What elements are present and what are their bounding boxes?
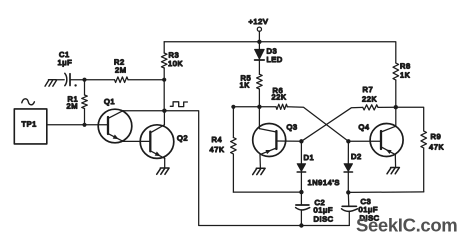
svg-text:SeekIC.com: SeekIC.com: [356, 215, 457, 236]
diode D3 LED: [255, 42, 283, 74]
+12V supply terminal: [249, 17, 269, 42]
svg-text:2M: 2M: [67, 102, 79, 111]
svg-text:10K: 10K: [168, 59, 183, 68]
resistor R1 2M: [67, 80, 88, 125]
node junction Q4 base/D2: [346, 139, 350, 143]
svg-text:1K: 1K: [400, 71, 410, 80]
wire R9 bottom to D2/C3 node: [348, 191, 423, 194]
svg-text:2M: 2M: [115, 66, 127, 75]
node junction C1/R1/R2: [82, 78, 86, 82]
ground for C1: [45, 80, 57, 87]
watermark SeekIC.com: [356, 215, 457, 236]
wire Q3 base node to R7 (cross coupling): [301, 107, 362, 141]
wire Q2 collector up to node: [163, 111, 165, 125]
svg-text:R7: R7: [363, 85, 374, 94]
svg-text:Q3: Q3: [287, 123, 298, 132]
node junction Q3 base/D1: [299, 139, 303, 143]
capacitor C2 .01uF DISC: [296, 192, 334, 225]
svg-text:Q1: Q1: [104, 97, 115, 106]
svg-text:D1: D1: [304, 153, 315, 162]
resistor R8 1K: [393, 62, 411, 108]
wire Q1 collector to node: [123, 110, 164, 112]
transistor Q1: [98, 97, 132, 143]
node junction C2 on bottom rail: [299, 223, 303, 227]
node junction R2/R3: [162, 78, 166, 82]
transistor Q2: [140, 125, 188, 159]
svg-text:LED: LED: [267, 55, 283, 64]
svg-text:TP1: TP1: [22, 120, 37, 129]
transistor Q4: [359, 123, 404, 157]
wire node to R4 branch: [233, 106, 259, 108]
wire +12V top rail: [164, 42, 396, 63]
svg-text:Q4: Q4: [359, 123, 370, 132]
wire Q2 emitter to ground: [164, 158, 166, 168]
transistor Q3: [253, 123, 298, 157]
wire Q3 base to node: [276, 140, 301, 142]
resistor R3 10K: [161, 42, 183, 80]
svg-text:R9: R9: [431, 132, 442, 141]
ground under Q2: [157, 168, 169, 174]
resistor R2 2M: [85, 58, 165, 83]
wire trigger line from collector node to bottom rail: [164, 111, 349, 226]
node junction TP1/R1/Q1: [82, 123, 86, 127]
wire R4 bottom to D1/C2 node: [233, 191, 301, 193]
wire TP1 output to Q1 base: [47, 124, 108, 126]
wire Q4 emitter to ground: [394, 155, 396, 168]
node junction collectors/R3: [162, 109, 166, 113]
svg-text:22K: 22K: [272, 93, 287, 102]
sine wave symbol above TP1: [22, 99, 35, 105]
svg-text:R8: R8: [400, 62, 411, 71]
node junction D1/R4/C2: [299, 190, 303, 194]
node junction D2/R9/C3: [346, 190, 350, 194]
svg-text:22K: 22K: [362, 95, 377, 104]
diode D1: [297, 141, 314, 192]
svg-text:DISC: DISC: [314, 215, 334, 224]
svg-text:+12V: +12V: [249, 17, 269, 26]
svg-text:47K: 47K: [210, 145, 225, 154]
resistor R6 22K: [259, 86, 287, 109]
svg-text:1μF: 1μF: [58, 58, 73, 67]
wire Q4 base to node: [348, 140, 381, 142]
wire Q3 collector to node: [258, 107, 260, 129]
svg-text:47K: 47K: [429, 143, 444, 152]
resistor R4 47K: [210, 107, 237, 192]
diode D2: [344, 141, 362, 192]
square wave symbol: [170, 102, 187, 107]
wire Q1 emitter to Q2 base: [123, 140, 150, 142]
svg-text:R4: R4: [212, 135, 223, 144]
node junction R5/R6/R4/Q3: [257, 105, 261, 109]
node junction R4 top: [231, 105, 235, 109]
svg-text:D2: D2: [351, 152, 362, 161]
label 1N914S: [308, 178, 340, 187]
svg-text:1K: 1K: [240, 81, 250, 90]
svg-text:01μF: 01μF: [314, 206, 333, 215]
resistor R9 47K: [396, 107, 444, 192]
ground under Q3: [253, 168, 265, 174]
wire Q3 emitter to ground: [259, 155, 261, 169]
capacitor C1 1uF: [56, 50, 85, 87]
node junction R7/R8/Q4/R9: [394, 105, 398, 109]
resistor R7 22K: [362, 85, 396, 110]
signal source TP1: [14, 109, 47, 144]
wire Q4 collector to node: [395, 107, 397, 126]
wire R6 to Q4 base (cross coupling): [287, 107, 348, 142]
svg-text:Q2: Q2: [177, 134, 188, 143]
node junction +12V on rail: [257, 40, 261, 44]
resistor R5 1K: [240, 74, 263, 107]
capacitor C3 .01uF: [342, 192, 380, 225]
svg-text:1N914'S: 1N914'S: [308, 178, 340, 187]
wire R2/R3 node down to collector node: [163, 80, 165, 111]
ground under Q4: [387, 168, 399, 174]
